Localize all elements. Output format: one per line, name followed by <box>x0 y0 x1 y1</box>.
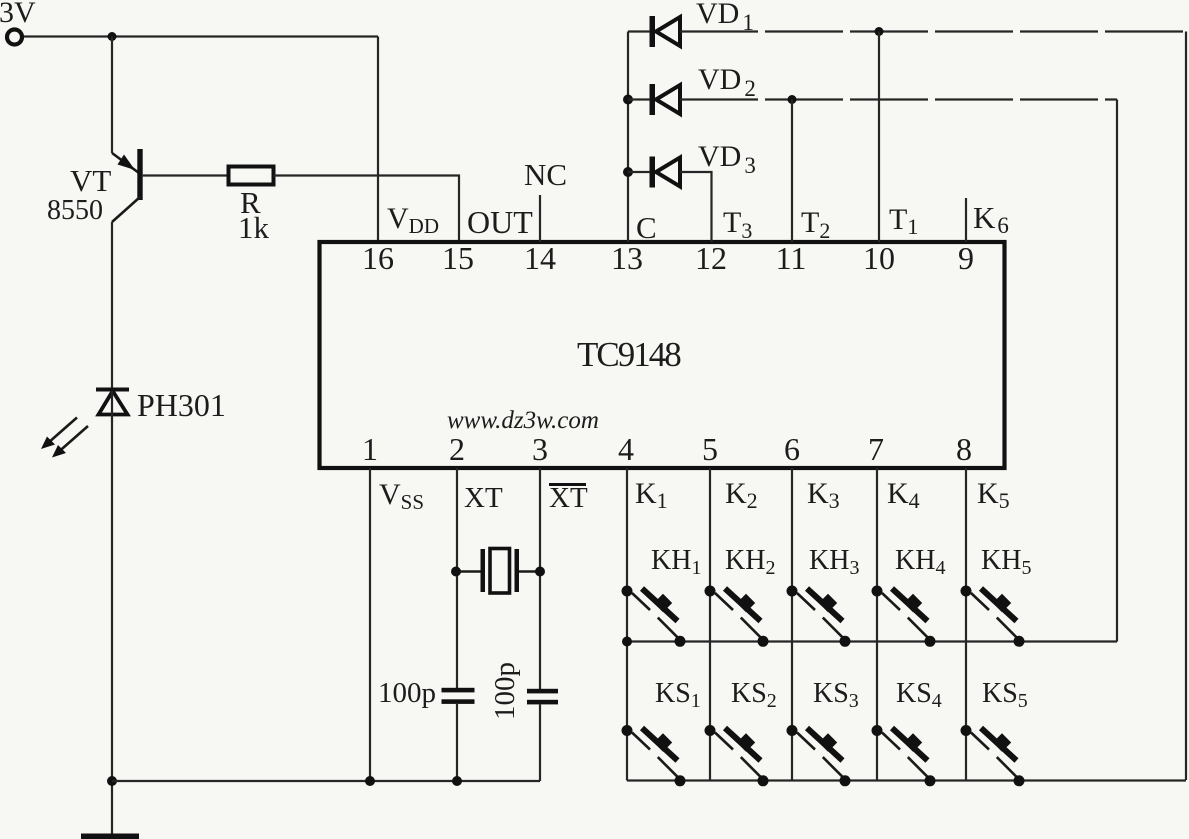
junction node C-VD2 <box>623 95 633 105</box>
svg-text:4: 4 <box>618 431 634 467</box>
wire T1 column pin 10 <box>878 32 880 243</box>
svg-text:KS4: KS4 <box>896 678 942 712</box>
resistor R <box>229 167 274 185</box>
svg-text:8: 8 <box>956 431 972 467</box>
svg-text:K6: K6 <box>973 200 1009 238</box>
wire KH common row <box>627 640 1117 642</box>
svg-text:12: 12 <box>695 240 727 276</box>
svg-text:VD2: VD2 <box>698 63 756 101</box>
svg-text:K4: K4 <box>887 477 920 513</box>
svg-text:TC9148: TC9148 <box>577 335 681 374</box>
svg-text:KH3: KH3 <box>809 545 859 579</box>
svg-text:KS2: KS2 <box>731 678 777 712</box>
wire right rail KS (from VD1) <box>1185 32 1187 781</box>
wire base to pin 15 OUT <box>274 176 460 243</box>
svg-text:K5: K5 <box>977 477 1010 513</box>
svg-text:VD3: VD3 <box>698 140 756 178</box>
svg-text:1k: 1k <box>238 210 270 245</box>
wire pin 8 column K5 <box>965 468 967 781</box>
svg-text:16: 16 <box>362 240 394 276</box>
wire VDD drop to pin 16 <box>377 37 379 243</box>
wire collector <box>111 222 113 392</box>
svg-text:10: 10 <box>863 240 895 276</box>
junction node crystal right <box>535 567 545 577</box>
svg-text:3: 3 <box>532 431 548 467</box>
svg-text:100p: 100p <box>378 677 436 709</box>
svg-text:KH2: KH2 <box>725 545 775 579</box>
svg-text:VT: VT <box>70 163 111 198</box>
wire base <box>143 174 229 176</box>
IC U1 TC9148 body <box>320 242 1005 468</box>
pin 9 K6 stub <box>965 198 967 242</box>
wire LED to ground <box>111 391 113 834</box>
wire pin 2 column <box>456 468 458 781</box>
svg-text:KH4: KH4 <box>895 545 945 579</box>
svg-text:7: 7 <box>868 431 884 467</box>
wire emitter <box>111 37 113 154</box>
overline XT <box>549 483 586 486</box>
svg-text:9: 9 <box>958 240 974 276</box>
capacitor C2 100p <box>527 689 558 705</box>
svg-text:PH301: PH301 <box>137 387 226 423</box>
svg-text:C: C <box>636 210 657 245</box>
switch KS5 <box>961 725 1025 786</box>
battery terminal <box>7 30 22 45</box>
wire VD1 to right rail <box>680 30 1186 32</box>
switch KS2 <box>705 725 769 786</box>
wire ground line <box>112 780 540 782</box>
junction node T2 on VD2 line <box>788 95 797 104</box>
svg-text:13: 13 <box>611 240 643 276</box>
LED PH301 <box>41 390 129 458</box>
transistor VT 8550 <box>112 149 143 222</box>
wire KS common row <box>627 779 1186 781</box>
wire VD1 anode line <box>628 30 650 32</box>
switch KS3 <box>787 725 851 786</box>
wire VD2 to right rail <box>680 98 1117 100</box>
svg-text:KH1: KH1 <box>651 545 701 579</box>
switch KS1 <box>622 725 686 786</box>
junction node crystal left <box>451 567 461 577</box>
ground symbol <box>81 834 139 839</box>
svg-text:KH5: KH5 <box>981 545 1031 579</box>
svg-text:T3: T3 <box>723 206 752 243</box>
switch KH1 <box>622 586 686 647</box>
junction node emitter <box>108 32 117 41</box>
svg-text:100p: 100p <box>489 662 521 720</box>
wire pin 6 column K3 <box>791 468 793 781</box>
svg-text:K3: K3 <box>807 477 840 513</box>
svg-text:6: 6 <box>784 431 800 467</box>
svg-text:T2: T2 <box>801 206 830 243</box>
svg-text:K1: K1 <box>635 477 668 513</box>
wire pin 5 column K2 <box>709 468 711 781</box>
svg-text:VSS: VSS <box>379 478 424 514</box>
junction node pin2-ground <box>452 776 462 786</box>
switch KH4 <box>872 586 936 647</box>
wire pin 1 column <box>369 468 371 781</box>
pin 14 NC stub <box>539 195 541 242</box>
diode VD2 <box>650 84 681 115</box>
wire VD3 to pin 12 <box>628 172 712 242</box>
wire C column pin 13 <box>627 32 629 243</box>
svg-text:www.dz3w.com: www.dz3w.com <box>447 407 599 434</box>
svg-text:2: 2 <box>449 431 465 467</box>
diode VD3 <box>650 157 681 188</box>
svg-text:5: 5 <box>702 431 718 467</box>
wire VD2 anode line <box>628 98 650 100</box>
wire pin 4 column K1 <box>626 468 628 781</box>
switch KS4 <box>872 725 936 786</box>
svg-text:NC: NC <box>524 157 567 192</box>
junction node pin1-ground <box>365 776 375 786</box>
svg-text:11: 11 <box>776 240 807 276</box>
svg-text:VD1: VD1 <box>696 0 754 35</box>
wire 3V rail <box>24 35 378 37</box>
svg-text:T1: T1 <box>889 203 918 239</box>
diode VD1 <box>650 16 681 47</box>
wire T2 column pin 11 <box>791 100 793 243</box>
switch KH5 <box>961 586 1025 647</box>
junction node KH row left <box>622 637 632 647</box>
svg-text:14: 14 <box>524 240 556 276</box>
svg-text:KS3: KS3 <box>813 678 859 712</box>
svg-text:XT: XT <box>549 482 588 514</box>
junction node T1 on VD1 line <box>875 27 884 36</box>
wire pin 3 column <box>539 468 541 781</box>
svg-text:KS1: KS1 <box>655 678 701 712</box>
capacitor C1 100p <box>442 688 475 704</box>
junction node C-VD3 <box>623 167 633 177</box>
svg-text:3V: 3V <box>0 0 36 29</box>
svg-text:8550: 8550 <box>47 195 103 226</box>
svg-text:KS5: KS5 <box>982 678 1028 712</box>
svg-text:VDD: VDD <box>387 202 439 238</box>
wire pin 7 column K4 <box>876 468 878 781</box>
svg-text:OUT: OUT <box>467 204 533 240</box>
svg-text:K2: K2 <box>725 477 758 513</box>
svg-text:XT: XT <box>464 482 503 514</box>
junction node ground line <box>107 776 117 786</box>
switch KH3 <box>787 586 851 647</box>
switch KH2 <box>705 586 769 647</box>
crystal X1 <box>456 549 540 594</box>
svg-text:15: 15 <box>442 240 474 276</box>
wire right rail KH (from VD2) <box>1116 100 1118 642</box>
svg-text:1: 1 <box>362 431 378 467</box>
